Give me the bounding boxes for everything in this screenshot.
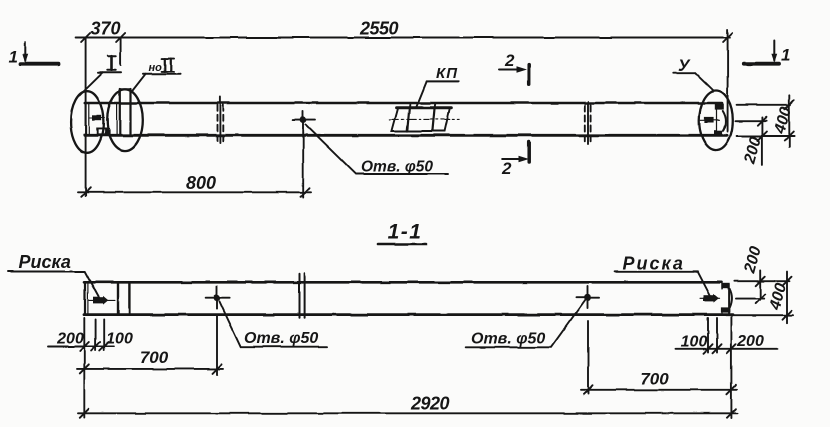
detail oval У (right balloon) <box>699 91 733 151</box>
svg-text:700: 700 <box>140 348 169 367</box>
svg-text:2: 2 <box>504 51 515 70</box>
hole left (bottom view) <box>206 287 230 309</box>
title 1-1 underline <box>378 243 427 246</box>
svg-text:100: 100 <box>681 334 708 351</box>
left vertical plate lines (bottom view) <box>117 282 119 314</box>
left end bottom notch <box>97 129 108 135</box>
beam top view: bottom edge <box>85 134 727 137</box>
leader Отв ф50 bottom-left <box>220 302 328 347</box>
ticks for 370/2550 <box>81 33 732 42</box>
svg-text:700: 700 <box>640 370 669 389</box>
weld stitch lines A (dashed) <box>218 97 224 143</box>
weld stitch lines B (dashed) <box>585 102 591 144</box>
svg-text:КП: КП <box>436 65 458 82</box>
section mark 1 (right) <box>744 40 779 64</box>
section mark 2 (top) <box>499 65 529 85</box>
leader Отв ф50 bottom-right <box>466 300 586 348</box>
svg-text:Отв. φ50: Отв. φ50 <box>244 330 318 347</box>
svg-text:1: 1 <box>9 48 18 67</box>
svg-text:Отв. φ50: Отв. φ50 <box>361 159 433 176</box>
middle stitch lines (bottom view) <box>299 274 301 318</box>
leader label У <box>673 73 713 90</box>
leader label но II <box>131 59 181 93</box>
beam section 1-1: top edge <box>84 281 722 284</box>
right end cap (bottom view) <box>721 283 732 314</box>
riska mark left (bottom view) <box>89 296 115 305</box>
section mark 1 (left) <box>21 42 59 64</box>
section mark 2 (bottom) <box>502 142 530 162</box>
right side dims 200/400 (bottom view) <box>726 271 793 324</box>
svg-text:200: 200 <box>736 333 764 350</box>
detail oval I (left balloon) <box>71 91 104 153</box>
plate КП (parallelogram with hatch lines) <box>390 104 460 131</box>
svg-text:400: 400 <box>771 105 795 136</box>
dimension 800 <box>78 130 311 198</box>
plate in oval II (tab above beam) <box>117 89 131 135</box>
svg-text:800: 800 <box>186 173 216 193</box>
svg-text:1-1: 1-1 <box>388 221 423 244</box>
svg-text:Риска: Риска <box>623 254 685 274</box>
dimension line 370 / 2550 <box>76 30 730 197</box>
beam top view: top edge <box>85 102 722 105</box>
leader label I <box>80 56 122 95</box>
right side dims 400/200 (top view) <box>736 95 795 165</box>
svg-text:Отв. φ50: Отв. φ50 <box>471 331 545 348</box>
beam top view: left end lines <box>85 103 87 135</box>
dim 700 (bottom right) <box>581 321 737 394</box>
hole right (bottom view) <box>576 286 599 308</box>
svg-text:Риска: Риска <box>19 252 71 272</box>
hole (top view) Отв. ф50 <box>293 111 315 128</box>
leader to Отв. ф50 label (top view) <box>306 125 449 175</box>
svg-text:но: но <box>149 62 163 74</box>
leader to КП label <box>416 81 427 108</box>
svg-text:2: 2 <box>501 159 512 178</box>
svg-text:200: 200 <box>741 245 765 276</box>
left end riska mark <box>89 115 105 120</box>
leader Риска right <box>615 272 711 297</box>
dims 200 / 100 (bottom left) <box>48 318 114 418</box>
riska mark right (bottom view) <box>700 294 720 303</box>
beam section 1-1: left end lines <box>84 282 86 314</box>
svg-text:2920: 2920 <box>410 394 450 414</box>
svg-text:200: 200 <box>56 331 84 348</box>
dims 100 / 200 (bottom right) <box>676 317 777 418</box>
svg-text:2550: 2550 <box>359 19 399 39</box>
beam section 1-1: bottom edge <box>84 313 733 316</box>
svg-text:100: 100 <box>106 331 133 348</box>
dim 700 (bottom left) <box>77 316 223 375</box>
detail oval II (second balloon) <box>107 89 143 150</box>
right end cap marks (top view) <box>701 104 726 136</box>
svg-text:1: 1 <box>781 46 790 65</box>
leader Риска left <box>8 272 100 299</box>
svg-text:У: У <box>678 56 691 75</box>
dim 2920 <box>78 412 737 414</box>
svg-text:370: 370 <box>90 19 120 39</box>
